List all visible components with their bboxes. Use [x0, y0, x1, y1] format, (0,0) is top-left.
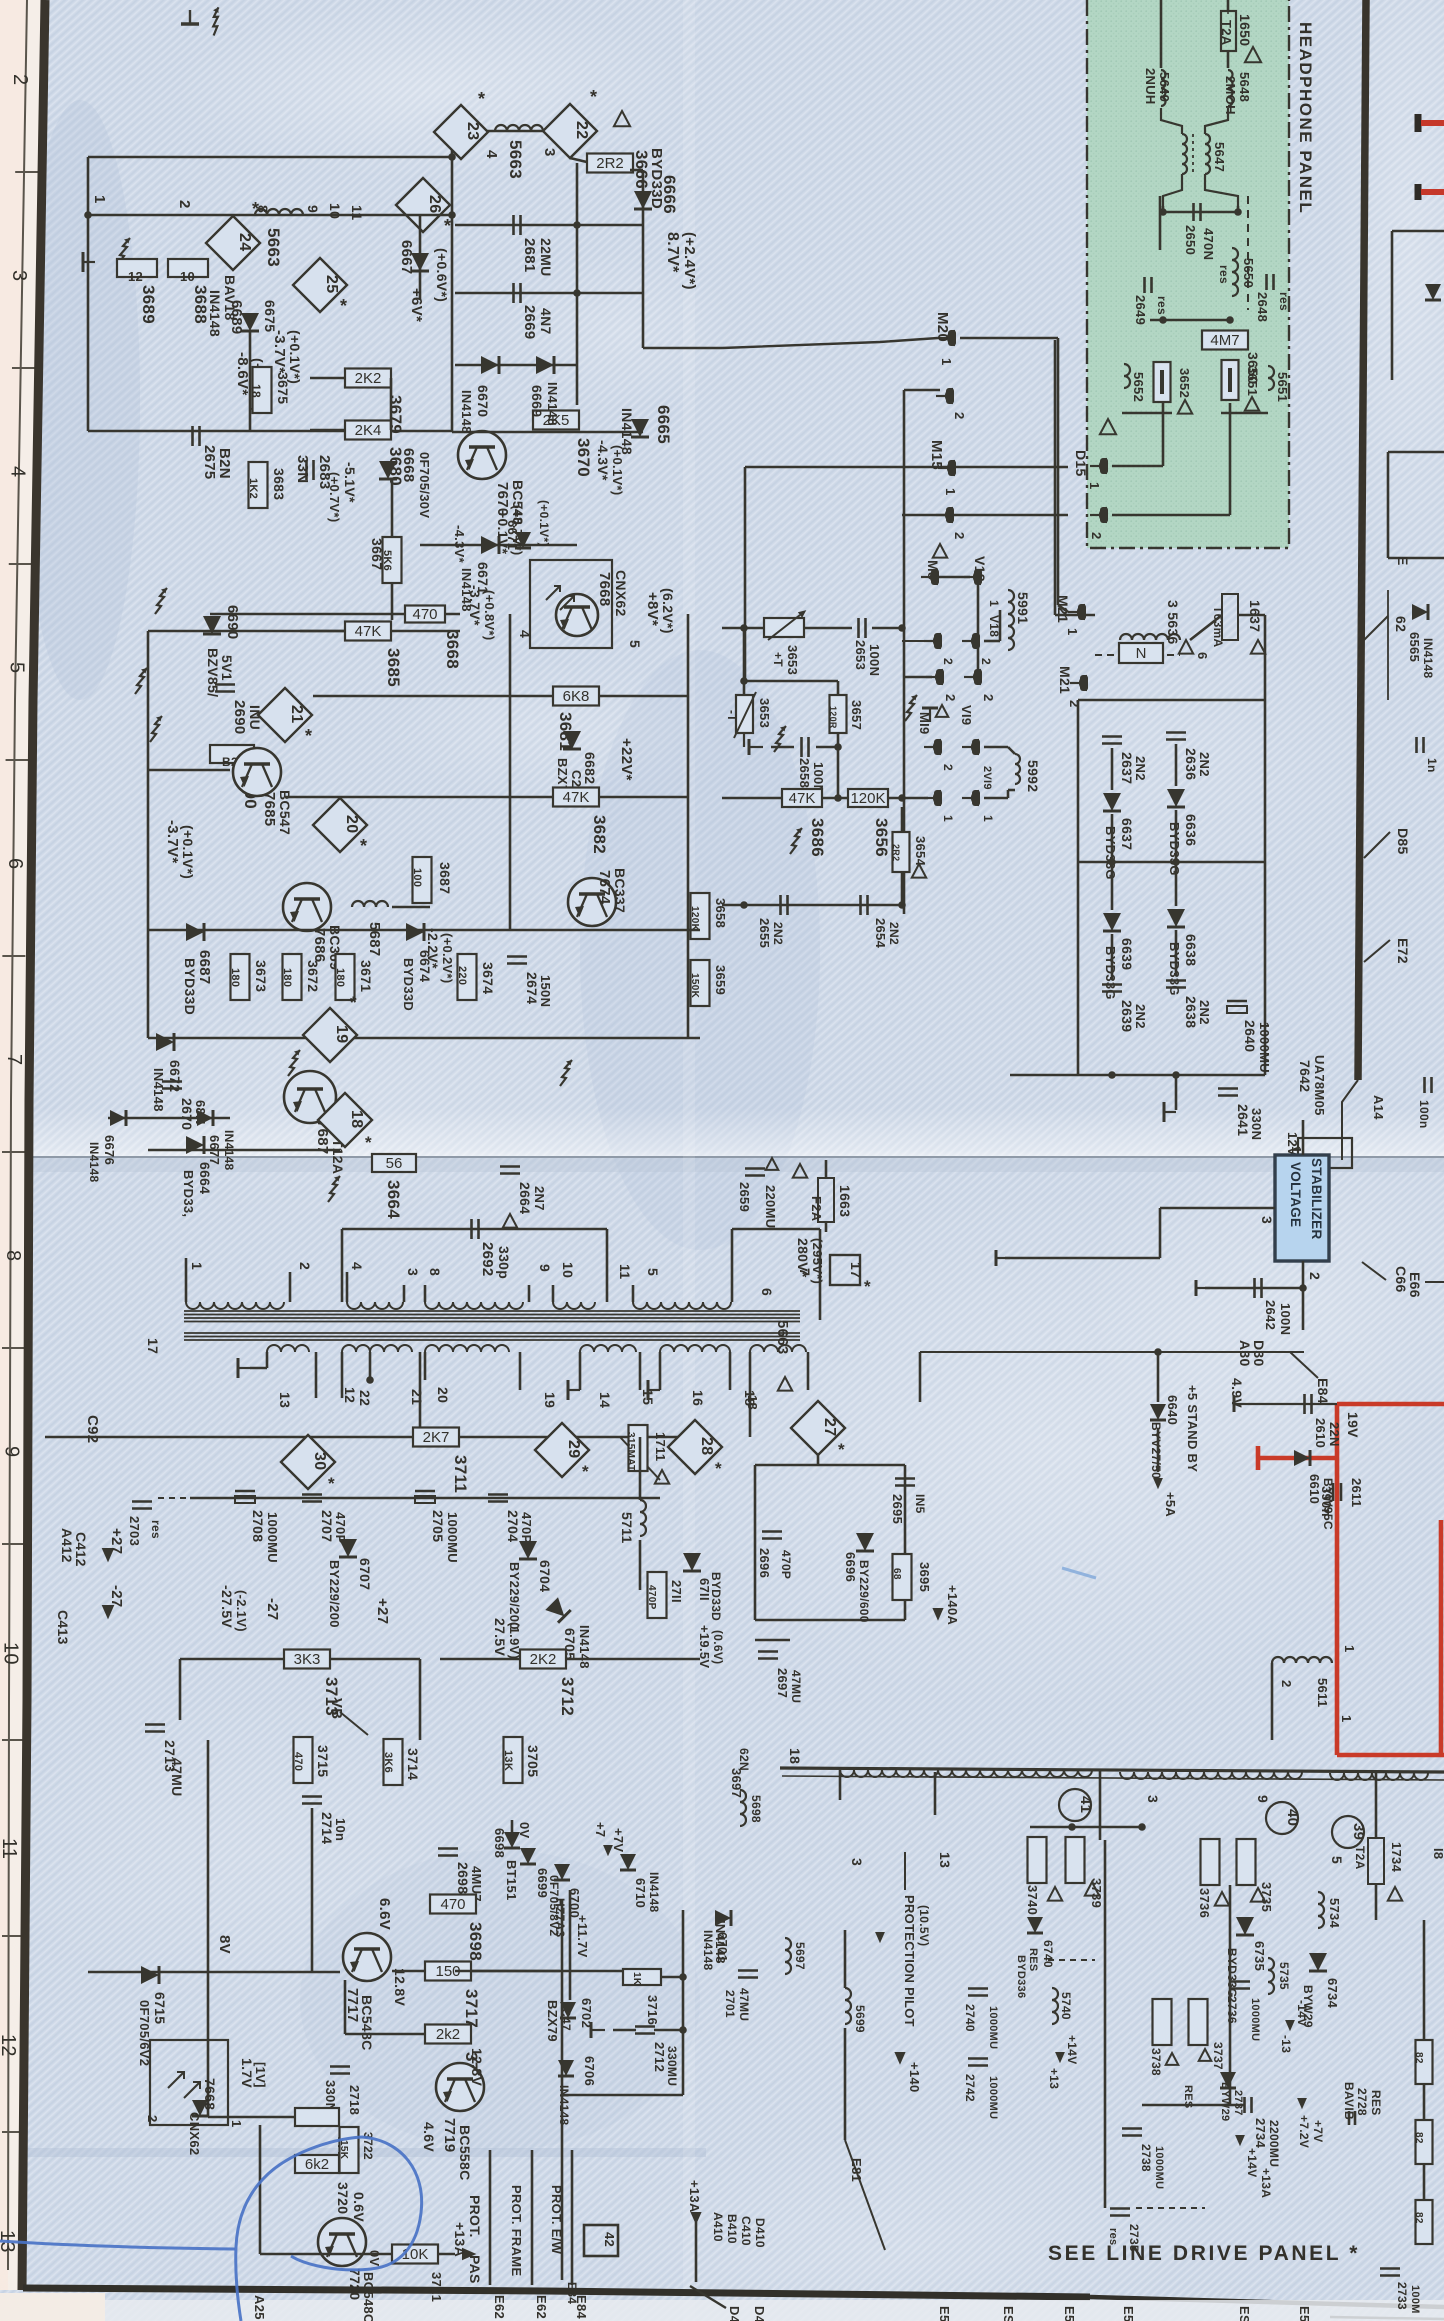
svg-text:PROTECTION PILOT: PROTECTION PILOT [902, 1895, 917, 2027]
svg-text:2670: 2670 [179, 1098, 195, 1130]
svg-text:28: 28 [698, 1437, 715, 1455]
svg-text:6675: 6675 [262, 300, 278, 332]
svg-text:2k2: 2k2 [436, 2026, 460, 2043]
svg-text:3667: 3667 [369, 538, 385, 570]
svg-text:2653: 2653 [853, 640, 868, 670]
svg-text:(-2.1V): (-2.1V) [234, 1590, 249, 1632]
svg-text:BY229/200: BY229/200 [327, 1560, 342, 1628]
svg-text:5652: 5652 [1131, 372, 1146, 402]
svg-text:470: 470 [440, 1896, 465, 1913]
svg-text:12: 12 [0, 2034, 19, 2057]
svg-text:(+2.4V*): (+2.4V*) [681, 232, 698, 290]
svg-text:*: * [350, 993, 357, 1012]
svg-text:BYD33D: BYD33D [182, 958, 198, 1015]
svg-text:7719: 7719 [441, 2118, 458, 2153]
svg-text:47K: 47K [563, 789, 590, 806]
svg-text:A410: A410 [711, 2212, 725, 2242]
svg-text:IN4148: IN4148 [459, 390, 474, 434]
svg-text:1: 1 [981, 815, 995, 822]
svg-text:100M: 100M [1409, 2285, 1421, 2314]
svg-text:6565: 6565 [1407, 632, 1422, 662]
svg-text:(+0.7V*): (+0.7V*) [327, 472, 342, 522]
svg-text:2N7: 2N7 [532, 1186, 547, 1211]
svg-text:5: 5 [645, 1268, 661, 1276]
svg-text:(10.5V): (10.5V) [917, 1905, 931, 1946]
svg-text:+5 STAND BY: +5 STAND BY [1185, 1385, 1200, 1472]
svg-text:2: 2 [1307, 1272, 1323, 1280]
svg-text:2: 2 [952, 412, 967, 420]
svg-text:13: 13 [277, 1392, 293, 1408]
svg-text:1000MU: 1000MU [445, 1512, 460, 1563]
svg-text:2: 2 [979, 658, 993, 665]
svg-text:3686: 3686 [808, 818, 827, 857]
svg-text:220MU: 220MU [763, 1185, 778, 1228]
svg-text:IN4148: IN4148 [647, 1872, 661, 1913]
svg-text:3653: 3653 [757, 698, 772, 728]
svg-text:1000MU: 1000MU [1257, 1022, 1272, 1073]
svg-text:res: res [1217, 265, 1231, 284]
svg-text:T2A: T2A [1353, 1846, 1367, 1870]
svg-text:7717: 7717 [344, 1988, 361, 2023]
svg-text:0V: 0V [367, 2250, 382, 2267]
svg-text:*: * [305, 726, 312, 746]
svg-text:5649: 5649 [1157, 72, 1172, 102]
svg-text:+140A: +140A [945, 1585, 960, 1625]
svg-text:5735: 5735 [1277, 1962, 1291, 1990]
svg-text:2: 2 [1279, 1680, 1294, 1688]
svg-text:19: 19 [542, 1392, 558, 1408]
svg-text:1K2: 1K2 [247, 478, 259, 499]
svg-text:6696: 6696 [843, 1552, 858, 1582]
svg-text:1: 1 [229, 2120, 244, 2128]
svg-text:2639: 2639 [1119, 1000, 1135, 1032]
svg-text:6K8: 6K8 [563, 688, 590, 705]
svg-text:BC548C: BC548C [359, 1995, 375, 2051]
svg-text:1: 1 [1342, 1645, 1357, 1653]
svg-text:2737: 2737 [1232, 2090, 1244, 2116]
svg-text:2N2: 2N2 [1197, 752, 1212, 777]
svg-text:A25: A25 [252, 2295, 267, 2320]
svg-text:3712: 3712 [558, 1677, 577, 1716]
svg-text:470P: 470P [519, 1512, 534, 1544]
svg-text:2681: 2681 [521, 238, 538, 273]
svg-text:5699: 5699 [853, 2005, 867, 2033]
svg-text:2: 2 [981, 694, 996, 702]
svg-text:6638: 6638 [1183, 934, 1199, 966]
svg-text:3715: 3715 [315, 1745, 331, 1777]
svg-text:5697: 5697 [793, 1942, 807, 1970]
svg-text:100N: 100N [867, 644, 882, 676]
svg-text:-14V: -14V [1295, 2000, 1309, 2027]
svg-text:7668: 7668 [202, 2078, 218, 2110]
svg-text:+6V*: +6V* [408, 288, 425, 322]
svg-text:-T: -T [725, 710, 739, 722]
svg-text:BC548C: BC548C [361, 2272, 376, 2321]
svg-text:PROT.: PROT. [467, 2195, 483, 2238]
svg-text:330MU: 330MU [665, 2046, 679, 2086]
svg-text:6668: 6668 [400, 448, 417, 483]
svg-text:*: * [360, 836, 367, 856]
svg-text:100: 100 [411, 868, 423, 887]
svg-text:IN4148: IN4148 [1421, 638, 1435, 679]
svg-text:2648: 2648 [1255, 292, 1270, 322]
svg-text:2636: 2636 [1183, 748, 1199, 780]
svg-text:6664: 6664 [197, 1162, 213, 1194]
svg-text:21: 21 [409, 1389, 425, 1405]
svg-text:7674: 7674 [596, 870, 613, 905]
svg-text:*: * [838, 1440, 845, 1459]
svg-text:4: 4 [7, 466, 29, 477]
svg-text:56: 56 [386, 1155, 403, 1172]
svg-text:27II: 27II [669, 1580, 684, 1603]
svg-text:1000MU: 1000MU [1249, 1998, 1261, 2041]
svg-text:2N2: 2N2 [887, 922, 901, 945]
svg-text:2654: 2654 [873, 918, 888, 949]
svg-text:6: 6 [1195, 652, 1210, 660]
svg-text:2669: 2669 [521, 305, 538, 340]
svg-text:47MU: 47MU [789, 1670, 803, 1703]
svg-text:3695: 3695 [917, 1562, 932, 1592]
svg-text:10n: 10n [333, 1818, 348, 1841]
svg-text:2738: 2738 [1139, 2144, 1153, 2172]
svg-text:6666: 6666 [660, 175, 679, 214]
svg-text:2712: 2712 [652, 2042, 667, 2072]
svg-text:-13: -13 [1279, 2035, 1293, 2053]
svg-text:C66: C66 [1393, 1266, 1409, 1293]
svg-text:VOLTAGE: VOLTAGE [1288, 1162, 1303, 1227]
svg-text:+27: +27 [108, 1528, 125, 1554]
svg-text:3: 3 [405, 1268, 421, 1276]
svg-text:1000MU: 1000MU [1153, 2146, 1165, 2189]
svg-text:2659: 2659 [737, 1182, 752, 1212]
svg-text:6: 6 [759, 1288, 775, 1296]
svg-text:2675: 2675 [201, 445, 218, 480]
svg-text:5647: 5647 [1212, 142, 1227, 172]
svg-text:C92: C92 [84, 1415, 101, 1443]
svg-text:6671: 6671 [505, 520, 520, 550]
svg-text:6735: 6735 [1252, 1941, 1267, 1971]
svg-text:C410: C410 [739, 2216, 753, 2246]
svg-text:-4.3V*: -4.3V* [452, 525, 467, 564]
svg-text:5651: 5651 [1275, 372, 1290, 402]
svg-text:IN4148: IN4148 [701, 1930, 715, 1971]
svg-text:2695: 2695 [890, 1494, 905, 1524]
svg-text:3717: 3717 [462, 1989, 481, 2028]
svg-text:BYD336: BYD336 [1015, 1955, 1027, 1998]
svg-text:3737: 3737 [1211, 2042, 1225, 2070]
svg-text:12: 12 [342, 1387, 358, 1403]
svg-text:IN4148: IN4148 [545, 382, 560, 426]
svg-text:B2N: B2N [216, 448, 233, 479]
svg-text:2658: 2658 [797, 758, 812, 788]
svg-text:M21: M21 [1057, 666, 1073, 694]
svg-text:3672: 3672 [305, 960, 321, 992]
svg-text:180: 180 [229, 968, 241, 987]
svg-text:IN4148: IN4148 [207, 290, 223, 337]
svg-text:9: 9 [305, 205, 321, 213]
svg-text:6639: 6639 [1119, 938, 1135, 970]
svg-text:47K: 47K [355, 623, 382, 640]
svg-text:6698: 6698 [492, 1828, 507, 1858]
svg-text:1000MU: 1000MU [987, 2076, 999, 2119]
svg-text:1: 1 [91, 195, 108, 204]
svg-text:3698: 3698 [466, 1922, 485, 1961]
svg-text:5: 5 [1329, 1856, 1345, 1864]
svg-text:3674: 3674 [480, 962, 496, 994]
svg-text:2733: 2733 [1395, 2282, 1409, 2310]
svg-text:-8.6V*: -8.6V* [234, 352, 251, 396]
svg-text:+7V: +7V [611, 1828, 626, 1852]
svg-text:1.7V: 1.7V [239, 2058, 255, 2088]
svg-text:7685: 7685 [261, 792, 278, 827]
svg-text:HEADPHONE PANEL: HEADPHONE PANEL [1296, 22, 1315, 214]
svg-text:-27: -27 [264, 1598, 281, 1621]
svg-text:5992: 5992 [1025, 760, 1041, 792]
svg-text:D4: D4 [752, 2306, 767, 2321]
svg-text:2705: 2705 [430, 1510, 446, 1542]
svg-text:1663: 1663 [837, 1185, 853, 1217]
svg-text:22N: 22N [1327, 1422, 1342, 1447]
svg-text:[1V]: [1V] [253, 2062, 268, 2088]
svg-text:2641: 2641 [1235, 1104, 1251, 1136]
svg-text:4N7: 4N7 [538, 308, 554, 335]
svg-text:*: * [340, 296, 347, 316]
svg-text:10: 10 [560, 1262, 576, 1278]
svg-text:2640: 2640 [1242, 1020, 1258, 1052]
svg-text:10: 10 [0, 1642, 21, 1665]
svg-text:150N: 150N [538, 975, 553, 1007]
svg-text:25: 25 [323, 275, 340, 293]
svg-text:BYD33,: BYD33, [181, 1170, 196, 1217]
svg-text:3654: 3654 [913, 836, 928, 867]
svg-text:IN5: IN5 [913, 1494, 927, 1514]
svg-text:7720: 7720 [347, 2268, 363, 2300]
svg-text:3652: 3652 [1177, 368, 1192, 398]
svg-text:5648: 5648 [1237, 72, 1252, 102]
svg-text:3664: 3664 [384, 1180, 403, 1219]
svg-text:D4: D4 [727, 2306, 742, 2321]
svg-text:*: * [582, 1462, 589, 1481]
svg-text:RES: RES [1369, 2090, 1383, 2116]
svg-text:2R2: 2R2 [596, 155, 624, 172]
svg-text:3736: 3736 [1197, 1888, 1212, 1918]
svg-text:BZV85/: BZV85/ [205, 648, 221, 697]
svg-text:4: 4 [517, 630, 533, 638]
svg-text:3673: 3673 [253, 960, 269, 992]
svg-text:+8V*: +8V* [644, 592, 661, 626]
svg-text:6674: 6674 [417, 950, 433, 982]
svg-text:+13A: +13A [452, 2222, 468, 2257]
svg-text:6710: 6710 [633, 1878, 648, 1908]
svg-text:(+0.1V*): (+0.1V*) [180, 825, 196, 879]
svg-text:2: 2 [941, 658, 955, 665]
svg-text:D85: D85 [1395, 828, 1411, 855]
svg-text:(0.6V): (0.6V) [711, 1630, 725, 1664]
svg-text:IN4148: IN4148 [577, 1625, 592, 1669]
svg-text:2: 2 [952, 532, 967, 540]
svg-text:6636: 6636 [1183, 814, 1199, 846]
svg-text:30: 30 [311, 1452, 328, 1470]
svg-text:470P: 470P [779, 1550, 793, 1579]
svg-text:2704: 2704 [505, 1510, 521, 1542]
svg-text:5663: 5663 [774, 1320, 791, 1355]
svg-text:9: 9 [1255, 1795, 1271, 1803]
svg-text:-3.7V*: -3.7V* [467, 585, 483, 626]
svg-text:HZ7A3: HZ7A3 [553, 1898, 567, 1938]
svg-text:ES: ES [1001, 2306, 1016, 2321]
svg-text:3720: 3720 [335, 2182, 351, 2214]
svg-text:2: 2 [297, 1262, 313, 1270]
svg-text:6637: 6637 [1119, 818, 1135, 850]
svg-text:330p: 330p [496, 1246, 512, 1279]
svg-text:0.6V: 0.6V [351, 2192, 367, 2222]
svg-text:(+0.6V*): (+0.6V*) [434, 248, 450, 302]
svg-text:22: 22 [357, 1390, 373, 1406]
svg-text:2611: 2611 [1349, 1478, 1364, 1507]
svg-text:2692: 2692 [479, 1242, 496, 1277]
svg-text:6676: 6676 [102, 1135, 117, 1165]
svg-text:res: res [1155, 296, 1169, 315]
svg-text:41: 41 [1077, 1796, 1094, 1813]
svg-text:I8: I8 [1431, 1848, 1444, 1859]
svg-text:13K: 13K [502, 1750, 514, 1771]
svg-text:7: 7 [3, 1054, 25, 1065]
svg-text:8: 8 [255, 205, 271, 213]
svg-text:33N: 33N [294, 455, 311, 483]
svg-text:8: 8 [427, 1268, 443, 1276]
svg-text:+14V: +14V [1245, 2148, 1259, 2178]
svg-text:C413: C413 [55, 1610, 71, 1645]
svg-text:3: 3 [8, 270, 30, 281]
svg-text:2: 2 [9, 74, 31, 85]
svg-text:-27: -27 [108, 1585, 125, 1608]
svg-text:-5.1V*: -5.1V* [342, 462, 358, 503]
svg-text:E84: E84 [1315, 1378, 1331, 1404]
svg-text:8: 8 [2, 1250, 24, 1261]
svg-text:315MAT: 315MAT [625, 1432, 636, 1471]
svg-text:6707: 6707 [357, 1558, 373, 1590]
svg-text:PROT. FRAME: PROT. FRAME [509, 2185, 524, 2276]
svg-text:PROT. E/W: PROT. E/W [549, 2185, 564, 2255]
svg-text:1n: 1n [1425, 758, 1439, 773]
svg-text:6665: 6665 [654, 405, 673, 444]
svg-text:N: N [1136, 645, 1147, 662]
svg-text:+140: +140 [907, 2062, 922, 2092]
svg-text:2742: 2742 [963, 2074, 977, 2102]
svg-text:6640: 6640 [1165, 1395, 1180, 1425]
svg-text:+11.7V: +11.7V [575, 1915, 590, 1958]
svg-text:5687: 5687 [366, 922, 383, 957]
svg-text:BC558C: BC558C [457, 2125, 473, 2181]
svg-text:2K2: 2K2 [530, 1651, 557, 1668]
svg-text:*: * [478, 89, 485, 109]
svg-text:+19.5V: +19.5V [697, 1625, 712, 1668]
svg-text:3K3: 3K3 [294, 1651, 321, 1668]
svg-text:IN4148: IN4148 [87, 1142, 101, 1183]
svg-text:5: 5 [5, 662, 27, 673]
svg-text:5: 5 [627, 640, 643, 648]
svg-text:26: 26 [426, 195, 443, 213]
svg-text:40: 40 [1284, 1809, 1301, 1826]
svg-text:*: * [715, 1459, 722, 1478]
svg-text:+13: +13 [1047, 2068, 1061, 2089]
svg-text:(6.2V*): (6.2V*) [660, 588, 676, 634]
svg-text:-3.7V*: -3.7V* [164, 820, 181, 864]
svg-text:3682: 3682 [590, 815, 609, 854]
svg-text:8V: 8V [216, 1935, 233, 1954]
svg-text:5663: 5663 [264, 228, 283, 267]
svg-text:47MU: 47MU [169, 1758, 185, 1797]
svg-text:20: 20 [435, 1387, 451, 1403]
svg-text:2N2: 2N2 [771, 922, 785, 945]
svg-text:BT151: BT151 [504, 1860, 519, 1901]
svg-text:2740: 2740 [963, 2004, 977, 2032]
svg-text:+5A: +5A [1163, 1492, 1178, 1517]
svg-text:+7: +7 [593, 1822, 608, 1837]
svg-text:14: 14 [597, 1392, 613, 1408]
svg-text:2701: 2701 [723, 1990, 737, 2018]
svg-text:BZX79: BZX79 [545, 2000, 560, 2042]
svg-text:120R: 120R [828, 706, 838, 729]
svg-text:BYD33G: BYD33G [1225, 1948, 1239, 1998]
svg-text:3 5636: 3 5636 [1165, 600, 1181, 645]
svg-text:2714: 2714 [319, 1812, 335, 1844]
svg-text:2707: 2707 [319, 1510, 335, 1542]
svg-text:2697: 2697 [775, 1668, 790, 1698]
svg-text:E84: E84 [565, 2282, 579, 2304]
svg-text:82: 82 [1413, 2052, 1424, 2064]
svg-text:(+0.8V*): (+0.8V*) [482, 590, 497, 640]
svg-text:6669: 6669 [529, 385, 545, 417]
svg-text:3K6: 3K6 [382, 1752, 394, 1773]
svg-text:+22V*: +22V* [618, 738, 635, 781]
svg-text:18: 18 [745, 1395, 760, 1410]
svg-text:ES: ES [1237, 2306, 1252, 2321]
svg-text:A412: A412 [59, 1528, 75, 1563]
svg-text:2R2: 2R2 [891, 844, 901, 861]
svg-text:3697: 3697 [729, 1768, 744, 1798]
svg-text:2690: 2690 [231, 700, 248, 735]
svg-text:2638: 2638 [1183, 996, 1199, 1028]
svg-text:10: 10 [327, 203, 343, 219]
svg-text:BYD33G: BYD33G [1167, 822, 1182, 876]
svg-text:(+0.1V*): (+0.1V*) [537, 500, 551, 547]
svg-text:6734: 6734 [1325, 1978, 1340, 2009]
svg-text:6.6V: 6.6V [376, 1898, 393, 1930]
svg-text:1711: 1711 [653, 1432, 668, 1461]
svg-text:(295V*): (295V*) [810, 1238, 825, 1284]
svg-text:CNX62: CNX62 [613, 570, 629, 617]
svg-text:19V: 19V [1345, 1412, 1361, 1438]
svg-text:2664: 2664 [517, 1182, 533, 1214]
svg-text:2: 2 [176, 200, 193, 209]
svg-text:12.8V: 12.8V [392, 1968, 408, 2006]
svg-text:CNX62: CNX62 [187, 2112, 202, 2155]
svg-text:6701: 6701 [715, 1932, 730, 1962]
svg-text:4: 4 [483, 150, 500, 159]
svg-text:16: 16 [690, 1390, 706, 1406]
svg-text:0F705/30V: 0F705/30V [417, 452, 432, 518]
svg-text:120K: 120K [850, 790, 885, 807]
svg-text:*: * [590, 87, 597, 107]
svg-text:1000MU: 1000MU [265, 1512, 280, 1563]
svg-text:VI9: VI9 [959, 705, 974, 725]
svg-text:1: 1 [1065, 628, 1080, 636]
svg-text:47K: 47K [789, 790, 816, 807]
svg-text:3653: 3653 [785, 645, 800, 675]
svg-text:+27: +27 [374, 1598, 391, 1624]
svg-text:4M7: 4M7 [1210, 332, 1239, 349]
